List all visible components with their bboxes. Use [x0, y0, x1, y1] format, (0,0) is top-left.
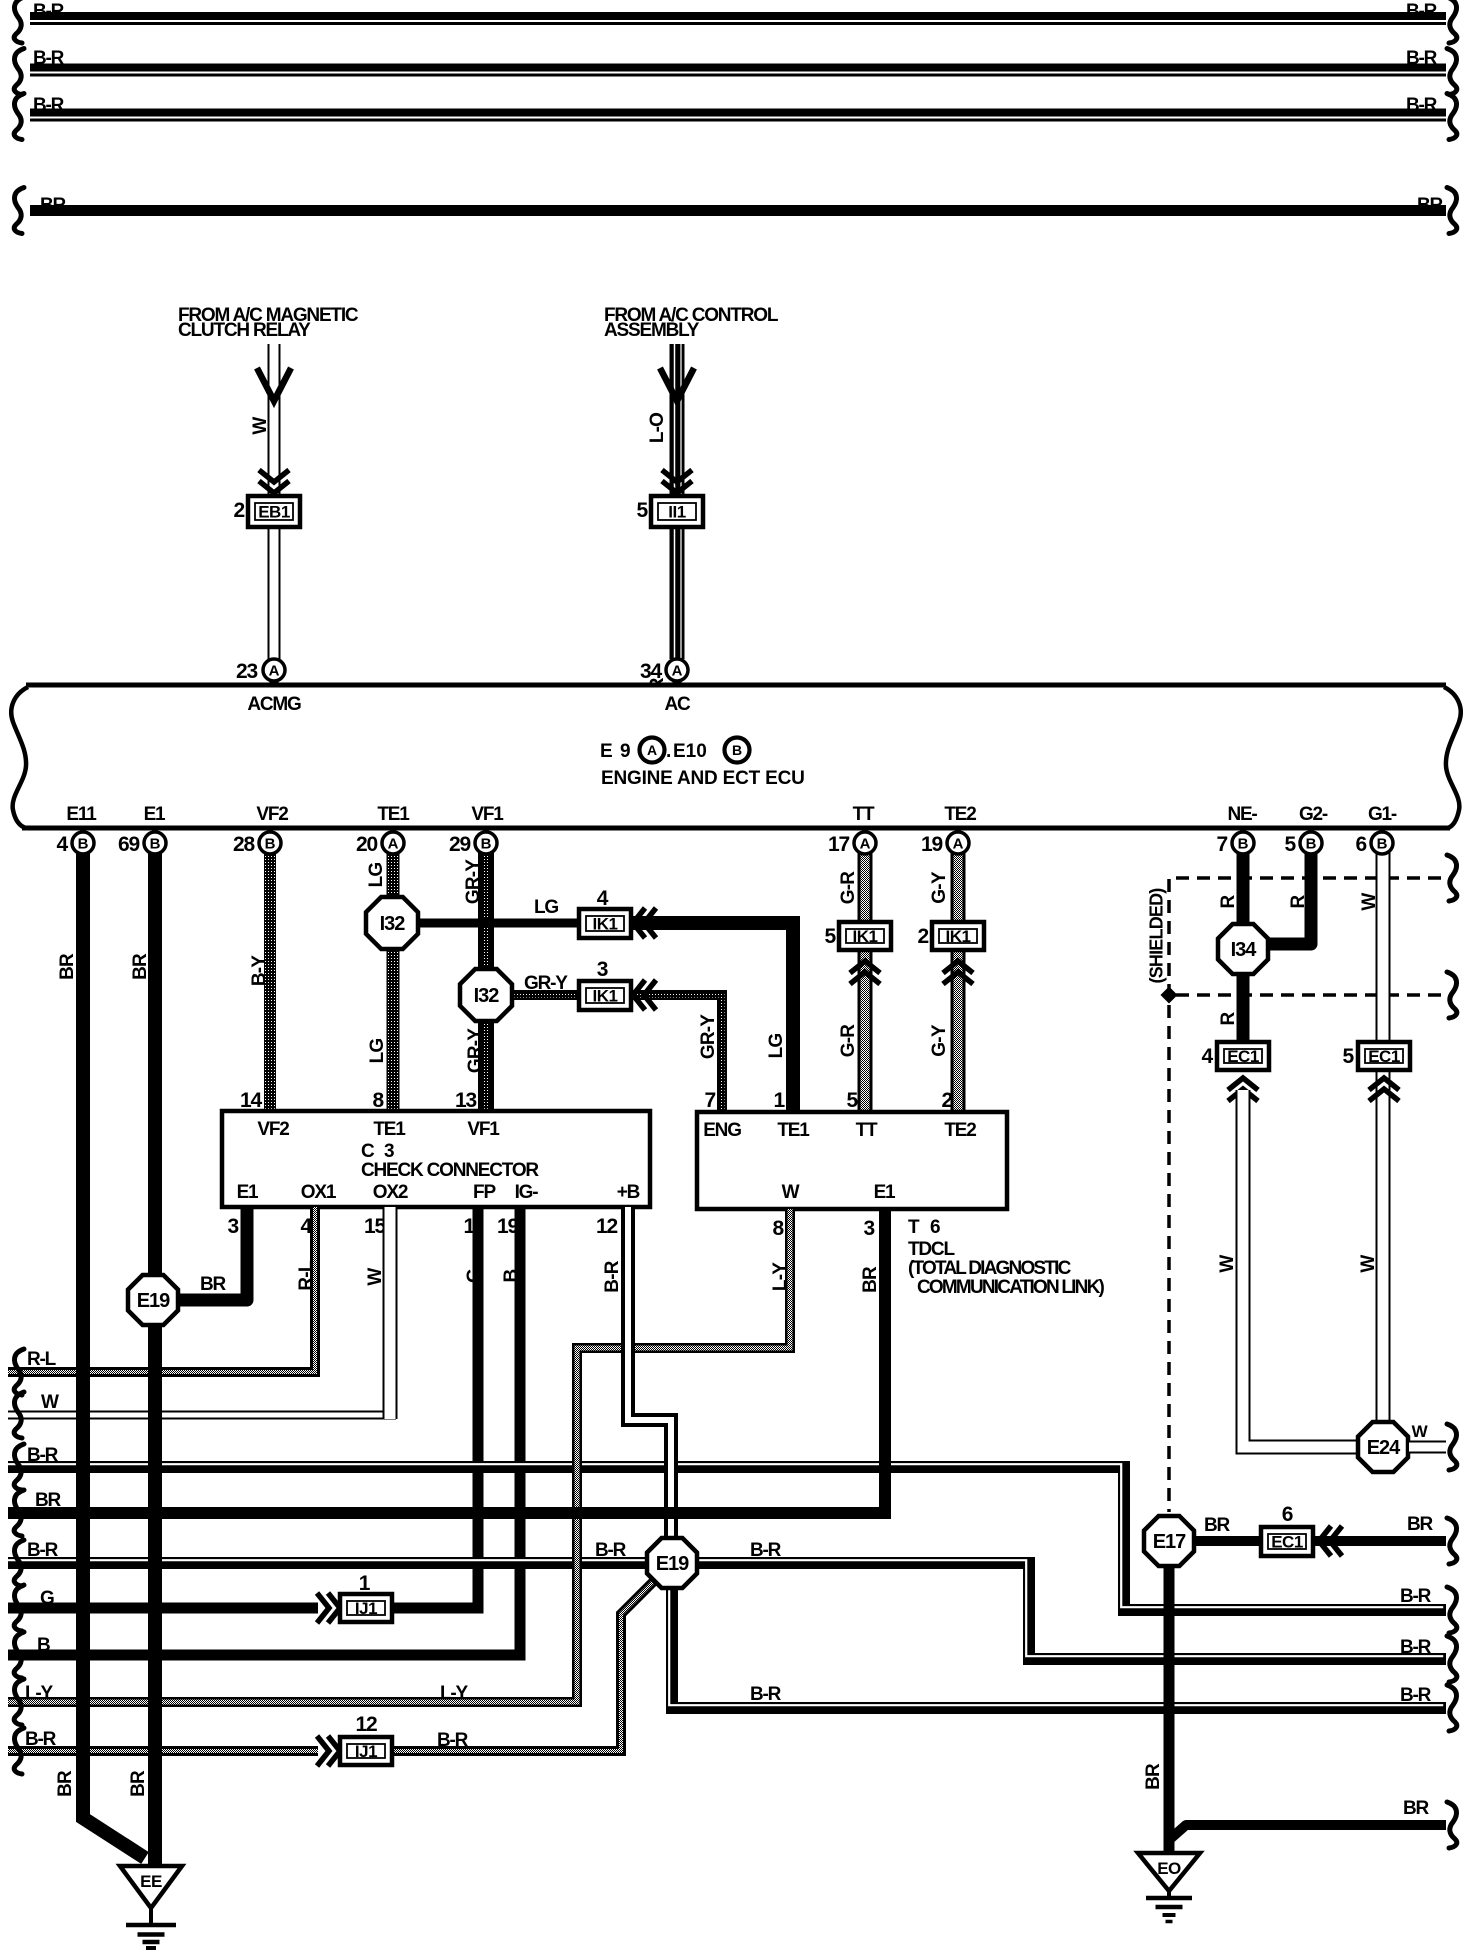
- svg-text:G: G: [40, 1588, 54, 1609]
- svg-text:EE: EE: [140, 1872, 162, 1891]
- svg-text:BR: BR: [200, 1274, 227, 1295]
- svg-text:12: 12: [356, 1713, 377, 1736]
- svg-text:R-L: R-L: [296, 1260, 317, 1290]
- svg-text:TT: TT: [856, 1120, 878, 1141]
- svg-text:7: 7: [1217, 833, 1228, 856]
- svg-text:A: A: [647, 742, 657, 758]
- svg-text:R: R: [1218, 894, 1239, 908]
- svg-text:BR: BR: [55, 1770, 76, 1797]
- svg-text:B: B: [78, 836, 89, 853]
- svg-text:BR: BR: [130, 953, 151, 980]
- svg-text:28: 28: [233, 833, 255, 856]
- svg-text:BR: BR: [1143, 1763, 1164, 1790]
- svg-text:OX1: OX1: [301, 1182, 337, 1203]
- svg-text:8: 8: [373, 1089, 385, 1112]
- svg-text:LG: LG: [766, 1034, 787, 1059]
- svg-text:G1-: G1-: [1368, 804, 1397, 825]
- svg-text:4: 4: [1202, 1045, 1214, 1068]
- svg-text:29: 29: [449, 833, 470, 856]
- svg-text:AC: AC: [664, 694, 691, 715]
- svg-text:6: 6: [1356, 833, 1367, 856]
- svg-text:G: G: [464, 1269, 485, 1283]
- svg-text:W: W: [250, 417, 271, 435]
- svg-text:BR: BR: [1204, 1515, 1231, 1536]
- svg-text:L-Y: L-Y: [770, 1262, 791, 1291]
- svg-text:BR: BR: [1417, 195, 1444, 216]
- svg-text:17: 17: [828, 833, 849, 856]
- svg-text:3: 3: [864, 1217, 875, 1240]
- svg-text:B-R: B-R: [33, 48, 65, 69]
- svg-text:8: 8: [773, 1217, 785, 1240]
- svg-text:LG: LG: [534, 897, 558, 918]
- svg-text:3: 3: [597, 958, 608, 981]
- svg-text:14: 14: [240, 1089, 262, 1112]
- svg-text:B-Y: B-Y: [249, 955, 270, 986]
- svg-text:B: B: [265, 836, 276, 853]
- svg-text:69: 69: [118, 833, 139, 856]
- svg-text:W: W: [1217, 1255, 1238, 1273]
- svg-text:(TOTAL DIAGNOSTIC: (TOTAL DIAGNOSTIC: [908, 1258, 1072, 1279]
- svg-text:VF1: VF1: [471, 804, 504, 825]
- svg-text:BR: BR: [128, 1770, 149, 1797]
- svg-text:E1: E1: [237, 1182, 259, 1203]
- svg-text:BR: BR: [40, 195, 67, 216]
- svg-text:B-R: B-R: [437, 1730, 469, 1751]
- svg-text:B-R: B-R: [750, 1684, 782, 1705]
- svg-text:34: 34: [640, 660, 662, 683]
- svg-text:B-R: B-R: [1400, 1685, 1432, 1706]
- svg-text:A: A: [860, 836, 871, 853]
- svg-text:L-Y: L-Y: [440, 1683, 469, 1704]
- svg-text:A: A: [388, 836, 399, 853]
- svg-text:I32: I32: [474, 985, 500, 1007]
- svg-text:R-L: R-L: [27, 1349, 57, 1370]
- svg-text:TE1: TE1: [377, 804, 410, 825]
- svg-text:CLUTCH RELAY: CLUTCH RELAY: [178, 320, 311, 341]
- svg-text:7: 7: [705, 1089, 716, 1112]
- svg-text:ACMG: ACMG: [247, 694, 301, 715]
- svg-text:5: 5: [1343, 1045, 1355, 1068]
- svg-text:13: 13: [455, 1089, 476, 1112]
- svg-text:12: 12: [596, 1215, 617, 1238]
- svg-text:ASSEMBLY: ASSEMBLY: [604, 320, 700, 341]
- svg-text:B-R: B-R: [33, 95, 65, 116]
- svg-text:.: .: [666, 741, 671, 762]
- svg-text:B-R: B-R: [1406, 1, 1438, 22]
- svg-text:TE2: TE2: [944, 1120, 976, 1141]
- svg-text:A: A: [672, 663, 683, 680]
- svg-text:IJ1: IJ1: [355, 1599, 377, 1618]
- svg-text:2: 2: [918, 925, 929, 948]
- svg-text:IJ1: IJ1: [355, 1742, 377, 1761]
- svg-text:B-R: B-R: [595, 1540, 627, 1561]
- svg-text:B: B: [1377, 836, 1388, 853]
- svg-text:A: A: [953, 836, 964, 853]
- svg-text:G2-: G2-: [1299, 804, 1328, 825]
- svg-text:2: 2: [234, 499, 245, 522]
- svg-text:W: W: [41, 1392, 59, 1413]
- svg-text:BR: BR: [57, 953, 78, 980]
- svg-text:19: 19: [921, 833, 942, 856]
- svg-text:BR: BR: [1403, 1798, 1430, 1819]
- svg-text:B-R: B-R: [602, 1260, 623, 1292]
- svg-text:TE2: TE2: [944, 804, 976, 825]
- svg-text:B: B: [150, 836, 161, 853]
- svg-text:NE-: NE-: [1227, 804, 1257, 825]
- svg-text:IK1: IK1: [593, 987, 618, 1006]
- svg-text:GR-Y: GR-Y: [698, 1014, 719, 1059]
- svg-text:CHECK CONNECTOR: CHECK CONNECTOR: [361, 1160, 539, 1181]
- svg-text:W: W: [1358, 1255, 1379, 1273]
- svg-text:B-R: B-R: [1406, 95, 1438, 116]
- svg-text:3: 3: [228, 1215, 239, 1238]
- svg-text:ENG: ENG: [703, 1120, 741, 1141]
- svg-text:6: 6: [930, 1217, 940, 1238]
- svg-text:G-R: G-R: [838, 871, 859, 905]
- svg-text:2: 2: [942, 1089, 953, 1112]
- svg-text:EC1: EC1: [1227, 1047, 1259, 1066]
- svg-text:BR: BR: [35, 1490, 62, 1511]
- svg-text:II1: II1: [668, 503, 685, 522]
- svg-text:IK1: IK1: [593, 915, 618, 934]
- svg-text:23: 23: [236, 660, 257, 683]
- svg-text:GR-Y: GR-Y: [463, 859, 484, 904]
- svg-text:VF2: VF2: [256, 804, 288, 825]
- svg-text:9: 9: [620, 741, 631, 762]
- svg-text:B-R: B-R: [750, 1540, 782, 1561]
- svg-text:G-Y: G-Y: [929, 871, 950, 904]
- svg-text:E10: E10: [673, 741, 707, 762]
- svg-text:B-R: B-R: [1400, 1637, 1432, 1658]
- svg-text:5: 5: [825, 925, 837, 948]
- svg-text:1: 1: [774, 1089, 786, 1112]
- svg-text:B-R: B-R: [27, 1445, 59, 1466]
- svg-text:TE1: TE1: [777, 1120, 810, 1141]
- svg-text:EC1: EC1: [1271, 1533, 1303, 1552]
- svg-text:B: B: [732, 742, 742, 758]
- svg-text:B-R: B-R: [25, 1729, 57, 1750]
- svg-text:OX2: OX2: [373, 1182, 408, 1203]
- svg-text:LG: LG: [366, 863, 387, 888]
- svg-text:T: T: [908, 1217, 920, 1238]
- svg-text:ENGINE AND ECT ECU: ENGINE AND ECT ECU: [601, 768, 805, 789]
- svg-text:IK1: IK1: [853, 927, 878, 946]
- svg-text:COMMUNICATION LINK): COMMUNICATION LINK): [917, 1277, 1104, 1298]
- svg-text:BR: BR: [1407, 1514, 1434, 1535]
- svg-text:E: E: [600, 741, 613, 762]
- svg-text:B: B: [501, 1269, 522, 1282]
- svg-text:W: W: [1412, 1422, 1429, 1441]
- svg-text:6: 6: [1282, 1503, 1293, 1526]
- svg-text:B: B: [1306, 836, 1317, 853]
- svg-text:L-Y: L-Y: [25, 1683, 54, 1704]
- svg-text:G-Y: G-Y: [929, 1024, 950, 1057]
- svg-text:G-R: G-R: [838, 1024, 859, 1058]
- svg-text:3: 3: [384, 1141, 394, 1162]
- svg-text:I34: I34: [1231, 939, 1258, 961]
- svg-text:IG-: IG-: [515, 1182, 539, 1203]
- svg-text:B: B: [481, 836, 492, 853]
- svg-text:+B: +B: [617, 1182, 640, 1203]
- svg-text:EB1: EB1: [258, 503, 290, 522]
- svg-text:VF2: VF2: [257, 1119, 289, 1140]
- svg-text:5: 5: [637, 499, 649, 522]
- svg-text:5: 5: [847, 1089, 859, 1112]
- svg-text:EO: EO: [1157, 1859, 1181, 1878]
- svg-text:EC1: EC1: [1368, 1047, 1400, 1066]
- svg-text:E17: E17: [1153, 1531, 1186, 1553]
- svg-text:W: W: [365, 1268, 386, 1286]
- svg-text:B: B: [1238, 836, 1249, 853]
- svg-text:(SHIELDED): (SHIELDED): [1147, 888, 1167, 984]
- svg-text:1: 1: [359, 1572, 371, 1595]
- svg-text:E19: E19: [656, 1553, 689, 1575]
- svg-text:E1: E1: [874, 1182, 896, 1203]
- svg-text:4: 4: [57, 833, 69, 856]
- svg-text:C: C: [361, 1141, 375, 1162]
- svg-text:B-R: B-R: [33, 1, 65, 22]
- svg-text:I32: I32: [380, 913, 406, 935]
- svg-text:R: R: [1288, 894, 1309, 908]
- svg-text:5: 5: [1285, 833, 1297, 856]
- svg-text:VF1: VF1: [467, 1119, 500, 1140]
- svg-text:B-R: B-R: [27, 1540, 59, 1561]
- svg-text:B: B: [37, 1635, 50, 1656]
- svg-text:W: W: [782, 1182, 800, 1203]
- svg-text:20: 20: [356, 833, 377, 856]
- svg-text:B-R: B-R: [1406, 48, 1438, 69]
- svg-text:TE1: TE1: [373, 1119, 406, 1140]
- svg-text:LG: LG: [367, 1039, 388, 1064]
- svg-text:E11: E11: [66, 804, 97, 825]
- svg-text:IK1: IK1: [946, 927, 971, 946]
- svg-text:TT: TT: [853, 804, 875, 825]
- svg-text:FP: FP: [473, 1182, 496, 1203]
- svg-text:4: 4: [597, 887, 609, 910]
- svg-text:GR-Y: GR-Y: [465, 1028, 486, 1073]
- svg-text:B-R: B-R: [1400, 1586, 1432, 1607]
- svg-text:TDCL: TDCL: [908, 1239, 955, 1260]
- svg-text:A: A: [269, 663, 280, 680]
- svg-text:GR-Y: GR-Y: [524, 973, 568, 994]
- svg-text:BR: BR: [860, 1266, 881, 1293]
- svg-text:E19: E19: [137, 1290, 170, 1312]
- svg-text:R: R: [1218, 1011, 1239, 1025]
- svg-text:E24: E24: [1367, 1437, 1401, 1459]
- svg-text:E1: E1: [144, 804, 166, 825]
- svg-text:L-O: L-O: [647, 413, 668, 443]
